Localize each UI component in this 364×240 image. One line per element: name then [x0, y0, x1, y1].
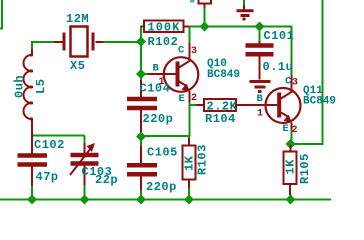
svg-text:C102: C102 — [34, 138, 65, 152]
svg-text:BC849: BC849 — [303, 96, 336, 108]
svg-text:3: 3 — [191, 46, 197, 57]
svg-text:0.1u: 0.1u — [263, 60, 294, 74]
svg-text:1K: 1K — [183, 155, 197, 171]
svg-text:2: 2 — [292, 125, 298, 136]
svg-text:0uh: 0uh — [13, 75, 27, 98]
svg-text:47p: 47p — [36, 170, 59, 184]
svg-text:C101: C101 — [264, 29, 295, 43]
svg-text:R105: R105 — [298, 153, 312, 184]
svg-text:B: B — [257, 93, 264, 105]
svg-text:1K: 1K — [284, 159, 298, 175]
svg-text:3: 3 — [292, 78, 298, 89]
svg-text:R103: R103 — [196, 144, 210, 175]
svg-text:B: B — [153, 63, 160, 75]
svg-text:100K: 100K — [148, 21, 181, 35]
svg-text:C: C — [285, 76, 292, 88]
svg-text:1: 1 — [257, 109, 263, 120]
svg-text:2: 2 — [191, 93, 197, 104]
svg-text:X5: X5 — [70, 59, 85, 73]
svg-text:E: E — [283, 123, 289, 135]
svg-text:C105: C105 — [147, 146, 178, 160]
svg-text:2.2K: 2.2K — [207, 100, 238, 114]
svg-text:220p: 220p — [143, 112, 174, 126]
svg-text:1: 1 — [159, 77, 165, 88]
svg-text:R102: R102 — [148, 35, 179, 49]
svg-text:L5: L5 — [34, 79, 48, 94]
svg-text:12M: 12M — [66, 12, 89, 26]
svg-text:22p: 22p — [95, 173, 118, 187]
svg-text:E: E — [179, 93, 185, 105]
svg-text:C104: C104 — [140, 82, 171, 96]
svg-text:220p: 220p — [146, 180, 177, 194]
svg-text:C: C — [178, 45, 185, 57]
svg-text:R104: R104 — [205, 112, 236, 126]
svg-text:BC849: BC849 — [207, 69, 240, 81]
